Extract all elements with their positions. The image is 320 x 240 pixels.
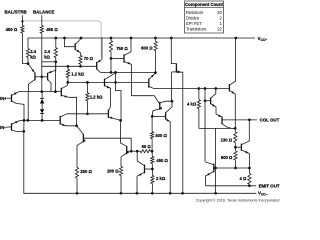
resistor R10 4 kohm bbox=[198, 89, 200, 100]
transistor Q7 base wire bbox=[111, 58, 124, 60]
rail node dot 2k bbox=[151, 192, 154, 195]
node dot base corner join bbox=[130, 150, 133, 153]
wire Q7 emitter descender to Q_N bbox=[132, 64, 160, 104]
wire collector line y113.8 bbox=[67, 113, 109, 115]
svg-text:60 Ω: 60 Ω bbox=[142, 144, 152, 149]
svg-text:600 Ω: 600 Ω bbox=[221, 155, 233, 160]
node dot 1.2k#1 top bbox=[67, 65, 70, 68]
transistor Q_I bbox=[148, 79, 150, 88]
svg-text:70 Ω: 70 Ω bbox=[84, 56, 94, 61]
resistor R12 60 ohm horizontal bbox=[140, 150, 150, 153]
transistor Q_B pnp bbox=[96, 62, 98, 70]
rail node dot 750 bbox=[110, 37, 113, 40]
svg-text:BAL/STRB: BAL/STRB bbox=[5, 10, 27, 15]
wire 750 bottom to y72 line bbox=[110, 59, 112, 73]
transistor Q_H bbox=[104, 79, 106, 87]
svg-text:4 kΩ: 4 kΩ bbox=[187, 102, 197, 107]
node dot 130-600 junction bbox=[234, 146, 237, 149]
wire EMIT OUT line bbox=[206, 185, 257, 187]
svg-text:400 Ω: 400 Ω bbox=[155, 133, 167, 138]
transistor Q_R right of pair bbox=[47, 73, 49, 81]
resistor R6 750 ohm bbox=[110, 38, 112, 41]
resistor R18 600 ohm right bbox=[234, 147, 236, 151]
rail node dot Q_O emitter bbox=[169, 192, 172, 195]
transistor Q_IN- input bbox=[7, 126, 12, 128]
transistor Q_A bbox=[74, 43, 76, 50]
transistor Q_J2 bbox=[107, 110, 109, 118]
svg-text:450 Ω: 450 Ω bbox=[46, 27, 58, 32]
wire x215 riser to VCC- rail bbox=[215, 128, 217, 193]
rail node dot 200 bbox=[120, 192, 123, 195]
rail node dot Q_L2 collector bbox=[235, 37, 238, 40]
VCC+ rail bbox=[28, 38, 255, 49]
wire collector line y72.4 bbox=[100, 71, 155, 73]
transistor Q_M1 bbox=[77, 126, 84, 135]
rail node dot 600 bbox=[154, 37, 157, 40]
node dot 2.4k left bottom bbox=[27, 62, 30, 65]
resistor R15 250 ohm bbox=[75, 167, 78, 178]
rail node dot FET source bbox=[181, 192, 184, 195]
node dot input collectors join bbox=[22, 130, 25, 133]
node dot 750 bottom bbox=[110, 57, 113, 60]
wire balance node down to diode top bbox=[41, 77, 43, 92]
resistor R9 1.2k #2 bbox=[86, 82, 88, 92]
node dot Q_L collector at EM- line bbox=[26, 119, 29, 122]
transistor Q_EMIT output bbox=[213, 164, 215, 173]
svg-text:22: 22 bbox=[217, 26, 222, 31]
transistor Q_M2 bbox=[121, 120, 127, 146]
transistor Q7 bbox=[123, 54, 125, 62]
node dot Q_J2 emitter bbox=[119, 119, 122, 122]
node dot diode top bbox=[40, 90, 43, 93]
svg-text:4 Ω: 4 Ω bbox=[240, 176, 247, 181]
resistor R4 2.4k right bbox=[54, 48, 57, 58]
wire base line of Q_L Q_R pair bbox=[35, 76, 48, 78]
diode D2 cathode-down bbox=[41, 103, 43, 109]
node dot 600 bottom Q_I emitter bbox=[154, 71, 157, 74]
wire riser 2.4k node to EM+ line bbox=[55, 62, 57, 70]
node dot 1.2k#2 bottom bbox=[86, 112, 89, 115]
svg-text:1.2 kΩ: 1.2 kΩ bbox=[90, 94, 103, 99]
transistor Q_L2 bbox=[228, 84, 230, 91]
rail node dot x215 bbox=[214, 192, 217, 195]
transistor Q_X bbox=[144, 165, 146, 174]
resistor R8 1.2k #1 bbox=[67, 66, 69, 69]
node dot Q_N emitter 400 top bbox=[151, 115, 154, 118]
transistor Q_O bbox=[166, 101, 172, 112]
svg-text:VCC−: VCC− bbox=[258, 191, 268, 197]
node dot 4ohm at EMIT line bbox=[248, 184, 251, 187]
wire y168 base line bbox=[214, 167, 250, 169]
transistor Q_G bbox=[60, 88, 62, 97]
resistor R3 2.4k left bbox=[26, 49, 29, 58]
wire EM- line IN- emitter bbox=[20, 119, 60, 121]
wire BALANCE pin bbox=[41, 15, 43, 25]
node dot descender at EM- line bbox=[23, 119, 26, 122]
svg-text:1.2 kΩ: 1.2 kΩ bbox=[71, 72, 84, 77]
grey rounded annotation box bbox=[23, 21, 102, 58]
node dot Q_X collector join bbox=[136, 150, 139, 153]
svg-text:450 Ω: 450 Ω bbox=[6, 27, 18, 32]
wire y88.5 line Q_I collector to Q_L2 base bbox=[154, 88, 230, 90]
node dot FET gate Q_N collector bbox=[171, 100, 174, 103]
transistor Q_N pnp bbox=[159, 102, 161, 110]
wire BALANCE branch to 2.4k bottom node bbox=[42, 61, 56, 63]
svg-text:200 Ω: 200 Ω bbox=[107, 169, 119, 174]
wire BAL/STRB below resistor to corner bbox=[22, 33, 28, 63]
node dot 70ohm bottom bbox=[79, 65, 82, 68]
node dot COL OUT bbox=[248, 119, 251, 122]
svg-text:Copyright © 2016, Texas Instru: Copyright © 2016, Texas Instruments Inco… bbox=[196, 198, 280, 202]
resistor R11 400 ohm bbox=[151, 116, 153, 131]
resistor R14 2 kohm bbox=[151, 169, 153, 175]
wire BAL/STRB pin bbox=[21, 15, 23, 25]
node dot 450mid-2k junction Q_X base bbox=[151, 168, 154, 171]
node dot 400-450 junction bbox=[151, 150, 154, 153]
diode D1 cathode-up bbox=[41, 92, 43, 99]
node dot x215 on y168 bbox=[214, 167, 217, 170]
node dot Q_G collector 1.2k junction bbox=[66, 81, 69, 84]
wire Q_M1 base line bbox=[83, 138, 131, 151]
transistor Q_J bbox=[59, 116, 61, 125]
wire EM+ line IN+ emitter bbox=[19, 91, 61, 93]
transistor Q_A base wire bbox=[65, 38, 76, 47]
resistor R16 200 ohm bbox=[119, 166, 122, 175]
transistor Q_D pnp bbox=[216, 114, 222, 117]
wire BALANCE below resistor down to base node bbox=[41, 33, 43, 77]
node dot riser x115.5 on y82.4 bbox=[114, 81, 117, 84]
node dot Q_J emitter x76.6 bbox=[75, 124, 78, 127]
wire rail to 2.4k right bbox=[55, 38, 57, 48]
svg-text:2.4: 2.4 bbox=[30, 49, 36, 54]
svg-text:750 Ω: 750 Ω bbox=[116, 46, 128, 51]
rail node dot FET drain bbox=[170, 37, 173, 40]
wire riser x205 bbox=[204, 89, 206, 101]
node dot 2.4k right bottom bbox=[54, 60, 57, 63]
wire 4k bottom to 130 top bbox=[199, 127, 235, 129]
rail node dot 250 bbox=[76, 192, 79, 195]
EPI FET gate wire bbox=[172, 71, 178, 73]
node dot on BAL/STRB wire bbox=[21, 20, 23, 22]
svg-text:IN−: IN− bbox=[0, 125, 7, 130]
wire Q_G emitter over and down x76.6 bbox=[68, 97, 76, 126]
node dot 750 bottom junction on y72 bbox=[110, 71, 113, 74]
wire Q_B emitter up to rail bbox=[101, 38, 103, 59]
transistor Q_L left of pair bbox=[34, 73, 36, 81]
svg-text:2 kΩ: 2 kΩ bbox=[156, 176, 166, 181]
transistor Q_K bbox=[211, 89, 216, 98]
rail node dot Q_A collector bbox=[80, 37, 83, 40]
svg-text:kΩ: kΩ bbox=[30, 55, 36, 60]
node dot emitter y168 bbox=[248, 167, 251, 170]
transistor Q_COL output bbox=[235, 146, 241, 148]
svg-text:Diodes: Diodes bbox=[186, 15, 199, 20]
rail node dot above 2.4k right bbox=[54, 37, 57, 40]
svg-text:250 Ω: 250 Ω bbox=[80, 169, 92, 174]
rail node dot Q_X emitter bbox=[136, 192, 139, 195]
node dot balance base line bbox=[40, 75, 43, 78]
wire Q_M2 base to 60 ohm line bbox=[127, 150, 141, 152]
svg-text:2.4: 2.4 bbox=[44, 49, 50, 54]
resistor R450a (450 ohm) on BAL/STRB bbox=[21, 26, 24, 33]
svg-text:450 Ω: 450 Ω bbox=[156, 158, 168, 163]
component count table bbox=[185, 1, 224, 33]
resistor R13 450 ohm mid bbox=[151, 151, 153, 156]
EPI FET source wire bbox=[176, 72, 182, 193]
svg-text:EMIT OUT: EMIT OUT bbox=[259, 184, 280, 189]
resistor R450b (450 ohm) on BALANCE bbox=[40, 26, 43, 34]
svg-text:BALANCE: BALANCE bbox=[33, 10, 55, 15]
svg-text:20: 20 bbox=[217, 10, 222, 15]
svg-text:Transistors: Transistors bbox=[186, 26, 206, 31]
rail node dot Q_A base bbox=[63, 37, 66, 40]
wire Q_O base bbox=[152, 115, 165, 117]
resistor R19 4 ohm bbox=[248, 168, 250, 173]
resistor R7 600 ohm bbox=[155, 38, 157, 41]
node dot Q_K base node bbox=[204, 99, 207, 102]
svg-text:Component Count: Component Count bbox=[185, 2, 223, 7]
svg-text:130 Ω: 130 Ω bbox=[221, 138, 233, 143]
wire hline y66 BALANCE to Q_B base bbox=[42, 65, 97, 67]
node dot 1.2k#2 top bbox=[86, 81, 89, 84]
wire IN+ collector descender bbox=[23, 104, 25, 120]
node dot 4k top bbox=[197, 87, 200, 90]
wire riser x115.5 bbox=[116, 72, 122, 120]
wire Q_D base to COL OUT node bbox=[222, 119, 257, 121]
svg-text:EPI FET: EPI FET bbox=[186, 21, 202, 26]
EPI FET bbox=[171, 38, 176, 64]
node dot Q_K collector bbox=[214, 87, 217, 90]
VCC- rail bbox=[24, 131, 257, 193]
wire Q_L collector down to IN- emitter line bbox=[27, 92, 29, 121]
node dot 600 bottom on y168 bbox=[234, 167, 237, 170]
svg-text:VCC+: VCC+ bbox=[258, 36, 268, 42]
wire base line y82.4 bbox=[68, 81, 149, 83]
node dot diode bottom bbox=[41, 119, 44, 122]
svg-text:600 Ω: 600 Ω bbox=[141, 45, 153, 50]
svg-text:kΩ: kΩ bbox=[44, 55, 50, 60]
transistor Q_IN+ input bbox=[7, 97, 12, 99]
svg-text:Resistors: Resistors bbox=[186, 10, 203, 15]
node dot riser x115.5 on y72 bbox=[114, 71, 117, 74]
node dot Q_EMIT collector riser bbox=[204, 87, 207, 90]
node dot 130 top bbox=[234, 127, 237, 130]
resistor R17 130 ohm bbox=[234, 128, 236, 132]
rail node dot Q7 collector bbox=[130, 37, 133, 40]
svg-text:COL OUT: COL OUT bbox=[260, 118, 280, 123]
resistor R5 70 ohm bbox=[79, 55, 82, 64]
node dot at Q_G base riser bbox=[54, 90, 57, 93]
svg-text:IN+: IN+ bbox=[0, 96, 7, 101]
